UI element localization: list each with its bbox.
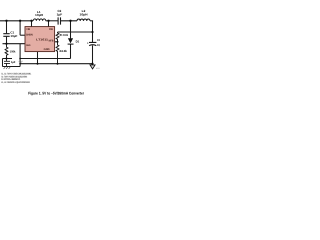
capacitor C3 — [89, 42, 96, 45]
capacitor C4 output left — [4, 59, 10, 67]
svg-text:10µH: 10µH — [35, 13, 43, 17]
ground bottom-left bar — [3, 66, 21, 68]
svg-text:100k: 100k — [10, 49, 16, 53]
svg-text:L1, L2: MURATA LQH3C100K04M2: L1, L2: MURATA LQH3C100K04M2 — [1, 81, 30, 84]
svg-text:VIN: VIN — [26, 28, 30, 31]
capacitor C1 — [3, 34, 9, 37]
wire VIN top stub — [31, 21, 33, 27]
wire L1 to C2 — [46, 20, 58, 22]
wire feedback top — [58, 31, 93, 33]
resistor R3 100k — [5, 44, 8, 59]
wire C2 to L2 — [61, 20, 77, 22]
wire gnd node to chip — [3, 43, 26, 45]
diode D1 — [68, 38, 74, 44]
ground right symbol — [90, 65, 95, 69]
junction gnd drop / rail A — [19, 58, 21, 60]
capacitor C2 — [58, 17, 60, 24]
svg-text:SHDN: SHDN — [26, 33, 33, 36]
svg-text:D1: D1 — [76, 40, 80, 44]
junction input rail / C1 — [5, 20, 7, 22]
svg-text:GND: GND — [26, 44, 31, 47]
svg-text:10µF: 10µF — [10, 34, 17, 38]
junction C2 / D1 / L2 node — [69, 20, 71, 22]
junction R2 / rail B — [57, 63, 59, 65]
junction feedback wire / output column — [91, 31, 93, 33]
wire chip GND stub — [37, 52, 39, 64]
wire D1 cathode down — [70, 44, 72, 58]
wire C1 to gnd node — [6, 37, 8, 44]
junction GND stub / rail B — [37, 63, 39, 65]
wire SHDN pin branch — [20, 34, 25, 36]
svg-text:1µF: 1µF — [57, 12, 63, 16]
svg-text:–5V: –5V — [18, 60, 23, 63]
resistor R2 — [56, 42, 59, 64]
svg-text:Figure 1. 5V to –5V/260mA Conv: Figure 1. 5V to –5V/260mA Converter — [28, 92, 84, 96]
wire NFB pin — [55, 41, 58, 43]
wire gnd drop — [19, 44, 21, 67]
svg-text:1611 F01: 1611 F01 — [96, 67, 100, 70]
wire 5V input rail — [0, 20, 33, 22]
inductor L1 — [33, 19, 45, 21]
wire VIN tie vertical — [19, 21, 21, 35]
wire D1 branch top — [70, 21, 72, 39]
svg-text:1µF: 1µF — [11, 61, 16, 64]
junction input rail / VIN pin — [30, 20, 32, 22]
svg-text:SW: SW — [49, 28, 53, 31]
junction R3 / rail A — [6, 58, 8, 60]
IC U1 LT1611 body — [25, 27, 55, 52]
junction L1 / SW node — [47, 20, 49, 22]
svg-text:10µH: 10µH — [80, 12, 88, 16]
wire rail left edge vertical — [3, 59, 13, 67]
ground bottom-left hatches — [4, 67, 11, 69]
node NFB divider tap — [57, 41, 59, 43]
notes text block — [1, 73, 31, 84]
svg-text:NFB: NFB — [49, 39, 54, 42]
inductor L2 — [77, 19, 90, 21]
wire output column lower — [92, 45, 94, 63]
wire -5V rail A — [20, 58, 70, 60]
junction C1 / ground wire — [5, 43, 7, 45]
junction output column / rail B — [91, 63, 93, 65]
wire C1 branch upper — [6, 21, 8, 34]
svg-text:R1 110k: R1 110k — [60, 33, 69, 37]
wire SW pin drop — [48, 21, 50, 27]
junction input rail / SHDN tie — [19, 20, 21, 22]
junction gnd drop / rail B — [19, 63, 21, 65]
svg-text:LT1611: LT1611 — [36, 38, 48, 42]
resistor R1 — [56, 32, 59, 42]
svg-text:GND: GND — [44, 48, 50, 51]
wire output column upper — [92, 21, 94, 42]
wire GND rail B — [20, 63, 92, 65]
svg-text:C3: C3 — [97, 38, 100, 42]
wire L2 to right corner — [90, 20, 93, 22]
svg-text:24.3k: 24.3k — [59, 49, 67, 53]
svg-text:10µ: 10µ — [97, 43, 100, 47]
